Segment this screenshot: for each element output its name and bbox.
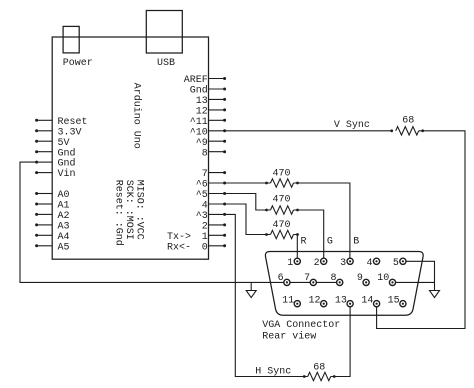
svg-text:^9: ^9 bbox=[196, 138, 208, 149]
VGA pin 8 bbox=[337, 279, 343, 285]
svg-text:14: 14 bbox=[361, 296, 373, 307]
wire: R2 to VGA pin 2 (G column) bbox=[294, 210, 324, 261]
Power connector rectangle bbox=[63, 26, 79, 53]
pin Gnd right stub bbox=[209, 88, 225, 90]
svg-text:Power: Power bbox=[63, 58, 93, 69]
svg-text:4: 4 bbox=[202, 201, 208, 212]
pin A2 stub bbox=[37, 213, 53, 215]
VGA pin 15 bbox=[400, 301, 406, 307]
svg-text:3: 3 bbox=[340, 258, 346, 269]
svg-text:13: 13 bbox=[196, 96, 208, 107]
svg-text:5: 5 bbox=[393, 258, 399, 269]
pin 11 stub bbox=[209, 119, 225, 121]
svg-text:8: 8 bbox=[330, 273, 336, 284]
VGA pin 12 bbox=[321, 301, 327, 307]
svg-text:Vin: Vin bbox=[58, 168, 76, 180]
VGA connector shell J1 bbox=[265, 252, 423, 316]
svg-text:A2: A2 bbox=[58, 211, 70, 222]
wire: pin 6 to resistor R1 bbox=[209, 182, 271, 184]
pin A1 stub bbox=[37, 203, 53, 205]
pin 5V stub bbox=[37, 140, 53, 142]
pin Vin stub bbox=[37, 172, 53, 174]
VGA pin 2 bbox=[321, 258, 327, 264]
svg-text:Rx<-: Rx<- bbox=[167, 242, 191, 253]
svg-text:2: 2 bbox=[202, 222, 208, 233]
svg-text:68: 68 bbox=[402, 116, 414, 127]
svg-text:A1: A1 bbox=[58, 201, 70, 212]
pin A5 stub bbox=[37, 245, 53, 247]
wire: pin 5 to resistor R2 bbox=[209, 194, 271, 211]
svg-text:Gnd: Gnd bbox=[190, 85, 208, 97]
svg-text:^5: ^5 bbox=[196, 190, 208, 201]
svg-text:15: 15 bbox=[388, 296, 400, 307]
svg-text:A3: A3 bbox=[58, 222, 70, 233]
svg-text:H Sync: H Sync bbox=[255, 366, 291, 377]
svg-text:A0: A0 bbox=[58, 190, 70, 201]
wire: V sync to VGA pin 14 bbox=[377, 131, 465, 329]
svg-text:2: 2 bbox=[314, 258, 320, 269]
svg-text:0: 0 bbox=[202, 242, 208, 253]
pin Gnd2 stub bbox=[37, 161, 53, 163]
svg-text:^11: ^11 bbox=[190, 117, 208, 128]
svg-text:^3: ^3 bbox=[196, 211, 208, 222]
svg-text:10: 10 bbox=[377, 273, 389, 284]
resistor R1 470 bbox=[271, 179, 294, 187]
svg-text:Gnd: Gnd bbox=[58, 147, 76, 159]
pin 1 TX stub bbox=[209, 234, 225, 236]
svg-text:1: 1 bbox=[287, 258, 293, 269]
svg-text:12: 12 bbox=[308, 296, 320, 307]
svg-text:6: 6 bbox=[278, 273, 284, 284]
svg-text:USB: USB bbox=[157, 58, 175, 69]
VGA pin 10 bbox=[389, 279, 395, 285]
wire: V Sync net from pin 10 bbox=[209, 130, 392, 132]
svg-text:68: 68 bbox=[313, 363, 325, 374]
svg-text:8: 8 bbox=[202, 148, 208, 159]
pin 3.3V stub bbox=[37, 130, 53, 132]
svg-text:VGA Connector: VGA Connector bbox=[262, 320, 340, 331]
USB connector rectangle bbox=[146, 11, 182, 54]
pin 9 stub bbox=[209, 140, 225, 142]
svg-text:470: 470 bbox=[272, 220, 290, 231]
VGA pin 14 bbox=[374, 301, 380, 307]
wire: R1 to VGA pin 3 (B column) bbox=[294, 183, 350, 261]
pin A0 stub bbox=[37, 193, 53, 195]
resistor R2 470 bbox=[271, 206, 294, 214]
VGA pin 3 bbox=[347, 258, 353, 264]
wire: pin 3 down to H Sync bbox=[209, 214, 308, 376]
pin 7 stub bbox=[209, 172, 225, 174]
wire: pin 4 to resistor R3 bbox=[209, 204, 271, 235]
svg-text:470: 470 bbox=[272, 195, 290, 206]
pin AREF stub bbox=[209, 78, 225, 80]
svg-text:B: B bbox=[353, 237, 359, 248]
wire: R3 to VGA pin 1 (R column) bbox=[294, 235, 298, 262]
svg-text:470: 470 bbox=[272, 169, 290, 180]
svg-text:13: 13 bbox=[335, 296, 347, 307]
svg-text:AREF: AREF bbox=[184, 75, 208, 86]
svg-text:^10: ^10 bbox=[190, 127, 208, 138]
wire: VGA pin 5 and pin 10 to right ground bbox=[403, 261, 435, 290]
pin Gnd1 stub bbox=[37, 151, 53, 153]
pin 12 stub bbox=[209, 109, 225, 111]
svg-text:^6: ^6 bbox=[196, 180, 208, 191]
svg-text:SCK: :MOSI: SCK: :MOSI bbox=[123, 180, 134, 240]
svg-text:Arduino Uno: Arduino Uno bbox=[130, 83, 142, 149]
pin A4 stub bbox=[37, 234, 53, 236]
pin 13 stub bbox=[209, 98, 225, 100]
Arduino Uno board outline U1 bbox=[52, 37, 208, 259]
svg-text:A4: A4 bbox=[58, 232, 70, 243]
wire: Gnd net from Arduino Gnd pin down and right to VGA pins 6-7-8 bbox=[20, 162, 340, 282]
VGA pin 5 bbox=[400, 258, 406, 264]
svg-text:Gnd: Gnd bbox=[58, 158, 76, 170]
svg-text:11: 11 bbox=[282, 296, 294, 307]
pin Reset stub bbox=[37, 119, 53, 121]
svg-text:G: G bbox=[327, 237, 333, 248]
svg-text:Reset: Reset bbox=[58, 117, 88, 128]
VGA pin 9 bbox=[363, 279, 369, 285]
VGA pin 13 bbox=[347, 301, 353, 307]
svg-text:7: 7 bbox=[202, 169, 208, 180]
VGA pin 4 bbox=[373, 258, 379, 264]
resistor 68 (H sync) bbox=[308, 372, 331, 380]
svg-text:R: R bbox=[301, 237, 307, 248]
svg-text:12: 12 bbox=[196, 107, 208, 118]
svg-text:4: 4 bbox=[366, 258, 372, 269]
pin 0 RX stub bbox=[209, 245, 225, 247]
svg-text:1: 1 bbox=[202, 232, 208, 243]
svg-text:5V: 5V bbox=[58, 138, 70, 149]
svg-text:Reset: :Gnd: Reset: :Gnd bbox=[112, 180, 124, 246]
pin A3 stub bbox=[37, 224, 53, 226]
svg-text:A5: A5 bbox=[58, 242, 70, 253]
pin 8 stub bbox=[209, 151, 225, 153]
svg-text:3.3V: 3.3V bbox=[58, 127, 82, 138]
ground symbol right bbox=[430, 291, 440, 298]
svg-text:V Sync: V Sync bbox=[334, 120, 370, 131]
VGA pin 1 bbox=[294, 258, 300, 264]
svg-text:9: 9 bbox=[357, 273, 363, 284]
svg-text:MISO: :VCC: MISO: :VCC bbox=[134, 180, 145, 240]
VGA pin 6 bbox=[284, 279, 290, 285]
svg-text:Rear view: Rear view bbox=[262, 331, 316, 343]
ground symbol left bbox=[250, 282, 252, 290]
svg-text:7: 7 bbox=[304, 273, 310, 284]
resistor 68 (V sync) bbox=[396, 127, 419, 135]
svg-text:Tx->: Tx-> bbox=[167, 232, 191, 243]
VGA pin 7 bbox=[310, 279, 316, 285]
pin 2 stub bbox=[209, 224, 225, 226]
VGA pin 11 bbox=[294, 301, 300, 307]
wire: H sync resistor to VGA pin 13 bbox=[331, 304, 350, 377]
resistor R3 470 bbox=[271, 230, 294, 238]
